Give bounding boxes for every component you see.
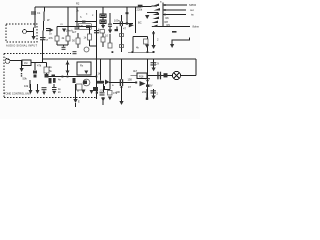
svg-text:a: a (112, 84, 114, 87)
svg-text:8ohm: 8ohm (193, 25, 200, 29)
svg-text:47k: 47k (49, 36, 54, 40)
svg-text:Rx: Rx (80, 64, 84, 68)
svg-text:2: 2 (157, 38, 159, 42)
svg-text:4k: 4k (62, 36, 65, 40)
svg-text:47: 47 (123, 27, 126, 31)
svg-text:2: 2 (157, 92, 159, 96)
svg-text:TONE CONTROL UNIT: TONE CONTROL UNIT (4, 92, 32, 96)
svg-text:m: m (61, 23, 63, 26)
svg-text:100n: 100n (114, 19, 120, 23)
svg-text:220k: 220k (137, 8, 143, 12)
svg-text:R2: R2 (76, 2, 80, 6)
svg-text:4k: 4k (136, 46, 139, 50)
svg-text:C9: C9 (156, 62, 160, 66)
svg-text:BC: BC (138, 21, 142, 25)
svg-text:22k: 22k (142, 90, 147, 94)
svg-text:4n7: 4n7 (72, 30, 77, 34)
svg-text:W: W (47, 18, 50, 22)
svg-text:1M: 1M (24, 62, 27, 65)
svg-text:47k: 47k (37, 64, 42, 68)
svg-text:50k: 50k (23, 77, 28, 81)
svg-text:c: c (92, 14, 94, 17)
svg-text:out: out (190, 8, 194, 12)
svg-text:E: E (78, 100, 80, 104)
svg-text:2n: 2n (58, 91, 61, 94)
svg-text:220: 220 (100, 89, 105, 93)
svg-text:a: a (160, 1, 162, 4)
svg-text:4n: 4n (58, 78, 61, 82)
svg-text:1k: 1k (84, 36, 87, 40)
svg-text:R9: R9 (167, 23, 171, 27)
svg-text:Tr: Tr (77, 90, 79, 93)
svg-text:Rb: Rb (166, 16, 170, 20)
svg-text:1k: 1k (49, 32, 52, 36)
svg-text:c: c (86, 13, 88, 16)
svg-text:6.3V: 6.3V (148, 85, 153, 88)
svg-text:R18: R18 (139, 76, 144, 79)
svg-text:C1: C1 (37, 11, 41, 15)
svg-text:50: 50 (72, 39, 75, 43)
svg-text:10k: 10k (24, 84, 29, 88)
svg-text:4k7: 4k7 (133, 69, 138, 73)
svg-text:1k: 1k (49, 65, 52, 69)
svg-text:47: 47 (128, 85, 131, 89)
svg-text:470: 470 (79, 25, 84, 28)
svg-text:100: 100 (116, 90, 121, 94)
svg-text:10: 10 (105, 34, 108, 38)
svg-text:AUDIO SIGNAL INPUT: AUDIO SIGNAL INPUT (6, 44, 38, 48)
svg-text:150: 150 (128, 78, 133, 82)
svg-text:1k: 1k (76, 9, 79, 13)
svg-text:5k: 5k (49, 69, 52, 73)
svg-text:tw: tw (191, 13, 194, 17)
svg-text:SPKR: SPKR (189, 3, 196, 7)
svg-text:h: h (80, 15, 82, 19)
